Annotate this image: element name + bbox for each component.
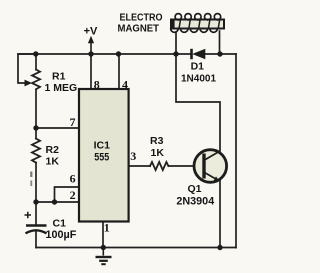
- wire pin 6: [55, 187, 80, 202]
- wire IC pin 1 down: [102, 222, 104, 248]
- svg-text:1N4001: 1N4001: [181, 73, 216, 84]
- wire right side riser: [235, 54, 237, 248]
- wire pin 8 riser: [90, 54, 92, 89]
- resistor R3: [150, 162, 168, 170]
- capacitor C1: [25, 212, 47, 234]
- svg-text:+V: +V: [84, 25, 98, 37]
- node R1 top: [33, 51, 38, 56]
- resistor R1: [32, 70, 40, 90]
- svg-text:2: 2: [70, 188, 76, 202]
- svg-text:1K: 1K: [151, 147, 165, 159]
- transistor Q1: [194, 150, 227, 183]
- svg-text:3: 3: [130, 149, 136, 163]
- diode D1: [192, 49, 206, 60]
- svg-text:1: 1: [104, 220, 110, 234]
- svg-text:Q1: Q1: [187, 183, 201, 195]
- wire R2 bottom lead: [35, 163, 37, 202]
- svg-text:100µF: 100µF: [46, 229, 77, 241]
- wire pin 7: [36, 127, 79, 129]
- node pin 4 junction: [116, 51, 121, 56]
- node +V junction: [88, 51, 93, 56]
- node pin6 pin2 tie: [52, 199, 57, 204]
- svg-text:D1: D1: [191, 60, 205, 72]
- svg-text:2N3904: 2N3904: [176, 195, 214, 207]
- svg-text:6: 6: [70, 172, 76, 186]
- svg-text:555: 555: [94, 151, 109, 163]
- svg-text:R2: R2: [46, 144, 60, 156]
- wire pin 2: [36, 201, 79, 203]
- op IC1 555 timer body: [79, 89, 129, 222]
- svg-text:4: 4: [122, 77, 128, 91]
- wire ground rail bottom: [36, 247, 236, 249]
- power +V arrow: [84, 25, 98, 54]
- svg-text:1 MEG: 1 MEG: [45, 82, 78, 94]
- ground: [96, 248, 112, 265]
- wire pin 3 to R3: [129, 165, 150, 167]
- wire rail diode-right segment: [206, 53, 237, 55]
- svg-text:C1: C1: [53, 217, 67, 229]
- wire Q1 emitter down: [219, 180, 221, 248]
- wire R1 bottom lead: [35, 89, 37, 128]
- node R1 R2 pin7 junction: [33, 125, 38, 130]
- electromagnet coil L1: [171, 14, 224, 33]
- svg-text:7: 7: [70, 115, 76, 129]
- wire C1 bottom lead: [35, 231, 37, 248]
- wire R2 top lead: [35, 128, 37, 139]
- wire top +V rail: [18, 53, 191, 55]
- node coil right / diode anode: [217, 51, 222, 56]
- wire R1 wiper loop: [18, 54, 36, 83]
- node emitter ground junction: [217, 245, 222, 250]
- wire coil left lead: [175, 32, 177, 54]
- wire R3 to Q1 base: [168, 165, 204, 167]
- wire Q1 collector up to coil node: [176, 54, 220, 151]
- wire pin 4 riser: [118, 54, 120, 89]
- svg-text:IC1: IC1: [94, 140, 111, 152]
- svg-text:R1: R1: [52, 70, 66, 82]
- wire C1 top lead: [35, 202, 37, 224]
- node coil left / diode cathode: [173, 51, 178, 56]
- node R2 C1 pin2 junction: [33, 199, 38, 204]
- svg-text:1K: 1K: [46, 156, 60, 168]
- svg-text:8: 8: [94, 77, 100, 91]
- resistor R2: [32, 139, 40, 163]
- potentiometer R1 wiper arrow: [25, 80, 33, 87]
- node ground tap: [101, 245, 106, 250]
- wire R1 top lead: [35, 54, 37, 70]
- svg-text:MAGNET: MAGNET: [118, 23, 160, 35]
- wire coil right lead: [219, 31, 221, 54]
- svg-text:R3: R3: [150, 135, 164, 147]
